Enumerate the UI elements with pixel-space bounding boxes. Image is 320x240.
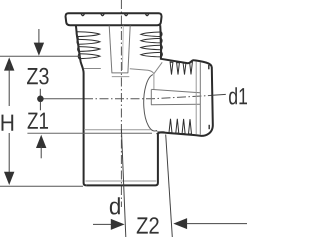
branch top rib tick 4	[190, 62, 193, 74]
vertical centerline of main pipe	[120, 0, 122, 207]
Z1 stem from node	[39, 102, 41, 111]
Z1 arrow stem below	[40, 146, 42, 158]
branch inner bore step	[150, 89, 152, 104]
body end double line upper	[84, 129, 151, 131]
diagonal transition edge socket to branch	[154, 62, 162, 74]
left rib 4	[79, 54, 100, 59]
branch opening arc	[144, 75, 158, 132]
inner socket bore bottom edge	[112, 72, 129, 74]
d leader tail	[93, 223, 111, 225]
d1 label	[229, 87, 247, 104]
fillet branch underside to pipe wall	[157, 132, 165, 134]
branch inner bore bottom line	[151, 103, 200, 106]
left rib 1	[78, 32, 100, 37]
branch inner bore top line	[151, 89, 200, 92]
horizontal branch axis	[43, 98, 84, 100]
socket rim	[66, 13, 162, 25]
rim notch 1	[81, 14, 84, 16]
d1 leader line	[213, 93, 226, 96]
body end line lower / Z1 reference line	[27, 132, 152, 134]
extension line from branch underside	[166, 135, 173, 238]
Z2 arrow	[173, 218, 187, 229]
right rib 3	[141, 45, 161, 50]
branch bottom rib tick 2	[176, 119, 179, 133]
right outline rib scallops	[161, 32, 162, 57]
branch bottom rib tick 1	[169, 119, 172, 133]
branch top rib tick 2	[177, 63, 180, 75]
right outer wall and branch outline	[158, 25, 213, 136]
H label	[2, 115, 14, 131]
internal shoulder line right segment	[130, 69, 154, 74]
node at axes crossing	[37, 96, 44, 103]
rim notch 3	[125, 14, 128, 16]
Z1 label	[28, 113, 48, 129]
branch bottom rib tick 3	[182, 119, 185, 134]
rim notch 4	[146, 14, 149, 16]
branch face top inner hook	[208, 65, 210, 70]
left outer wall	[76, 25, 86, 185]
extension line from pipe axis	[121, 129, 125, 237]
right rib 4	[141, 52, 161, 57]
inner pipe wall segment	[153, 74, 155, 90]
Z3 stem to node	[39, 89, 41, 96]
d arrow	[111, 219, 125, 230]
bottom edge	[86, 133, 158, 186]
inner socket bore right line	[128, 26, 130, 73]
branch face bottom inner hook	[208, 125, 210, 129]
left outline rib scallops	[77, 31, 80, 59]
Z3 arrow	[34, 43, 44, 56]
right rib 1	[141, 32, 161, 37]
Z3 arrow stem above	[38, 29, 40, 44]
inner bore lower shoulder line	[112, 76, 130, 78]
branch bottom rib tick 4	[189, 119, 192, 134]
top reference line	[0, 55, 81, 57]
Z1 arrow	[36, 135, 46, 148]
H dimension lower arrow	[4, 172, 14, 185]
branch face outer vertical line	[195, 62, 197, 135]
inner socket bore left line	[109, 26, 112, 73]
Z2 label	[137, 217, 159, 233]
Z3 label	[27, 68, 49, 85]
H dimension line upper segment	[8, 64, 10, 106]
H dimension upper arrow	[4, 57, 14, 70]
rim notch 2	[101, 14, 104, 16]
branch top rib tick 1	[170, 62, 173, 75]
Z2 leader tail	[187, 223, 248, 225]
internal shoulder line left segment	[84, 68, 101, 70]
left rib 2	[78, 39, 100, 44]
branch top rib tick 3	[183, 63, 186, 75]
inner socket bore middle line	[122, 26, 125, 71]
right rib 2	[141, 38, 161, 43]
bottom inner line	[86, 180, 157, 182]
branch face mouth line	[199, 62, 201, 135]
H dimension line lower segment	[8, 133, 10, 176]
d label	[110, 197, 120, 214]
bottom reference line	[0, 185, 83, 187]
left rib 3	[79, 47, 100, 52]
